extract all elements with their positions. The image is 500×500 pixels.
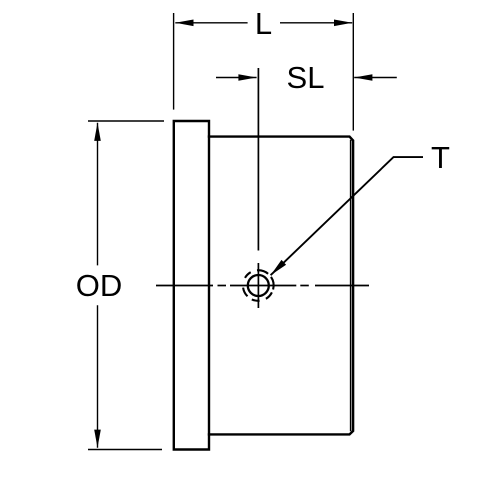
svg-text:SL: SL [287,60,325,95]
svg-text:L: L [255,6,272,41]
svg-text:T: T [431,140,450,175]
svg-text:OD: OD [76,268,123,303]
